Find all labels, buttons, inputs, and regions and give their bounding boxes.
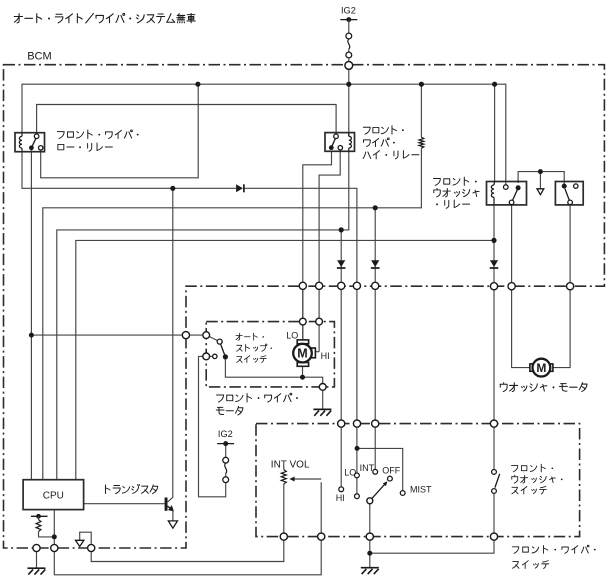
label front washer relay: [434, 179, 441, 186]
svg-text:MIST: MIST: [410, 485, 432, 495]
relay front wiper high - box: [325, 133, 355, 152]
front wiper motor enclosure border (dash-dot): [206, 322, 334, 387]
washer motor M2 - right terminal: [549, 364, 553, 371]
svg-text:HI: HI: [336, 493, 345, 503]
junction dot at CPU resistor tap: [36, 514, 41, 519]
relay front wiper low - armature dot: [29, 145, 34, 150]
relay front washer - NO contact dot: [516, 185, 521, 190]
connector motor box HI: [316, 318, 323, 325]
wire sub switch output to washer motor right: [553, 205, 570, 368]
wire INT line down to INT contact: [374, 208, 376, 469]
wire LO contact lower stub: [356, 478, 358, 494]
connector BCM bottom wiper-LO: [353, 282, 360, 289]
washer sub switch - output contact: [568, 200, 573, 205]
wiper switch pivot: [367, 498, 373, 504]
wire low relay NC contact loop to IG2 bus: [41, 84, 199, 178]
front wiper motor M1 - bottom terminal: [297, 363, 308, 367]
wire wiper switch pivot to ground: [369, 504, 371, 568]
IG2 lower supply dot: [223, 441, 228, 446]
washer switch arm: [495, 474, 500, 488]
off-page triangle at BCM ground line: [80, 532, 92, 548]
washer sub switch - arm: [565, 189, 570, 203]
wiper switch MIST contact: [400, 491, 405, 496]
svg-text:IG2: IG2: [218, 429, 233, 439]
wiper switch arm: [370, 484, 385, 501]
wire transistor base from CPU: [84, 503, 165, 505]
wire washer relay NO contact to sub switch contact: [518, 172, 564, 187]
wire HI node down to wiper switch HI contact: [340, 230, 342, 487]
wire LO line diode to wiper switch LO contact: [245, 188, 357, 473]
connector switch box bottom common: [366, 533, 373, 540]
svg-text:LO: LO: [286, 330, 298, 340]
wire INT VOL wiper arm: [294, 478, 321, 480]
wire washer relay coil bottom / washer switch line: [493, 205, 495, 470]
relay front washer - output contact: [509, 200, 514, 205]
wire CPU pin3 to HI node and high relay coil: [57, 151, 349, 479]
diode LO line D1 (pointing right): [236, 184, 243, 192]
IG2 top supply dot: [346, 17, 351, 22]
washer switch lower contact: [492, 489, 497, 494]
wiper switch LO lower contact: [355, 494, 360, 499]
wire washer relay coil top pin: [494, 84, 496, 182]
junction dot IG2 bus at NC loop: [195, 82, 200, 87]
front wiper motor M1 - HI terminal: [312, 348, 316, 358]
IG2 top supply bar: [340, 19, 357, 21]
auto-stop switch lower contact: [213, 354, 217, 358]
relay front washer - coil: [493, 182, 496, 205]
wire resistor to IG2 bus stub: [420, 84, 422, 137]
supply tap bar at CPU resistor: [31, 515, 48, 517]
wire low relay common to high relay common: [37, 105, 337, 134]
connector BCM bottom wiper-INT: [372, 282, 379, 289]
connector BCM bottom washer-motor-1: [508, 283, 515, 290]
junction dot washer coil at CPU line: [491, 238, 496, 243]
wire washer relay output to washer motor left: [512, 205, 530, 368]
wiper switch HI contact: [339, 487, 344, 492]
INT VOL wiper arrowhead: [289, 477, 294, 482]
connector BCM left auto-stop: [182, 332, 189, 339]
label washer motor: [500, 383, 507, 392]
relay front wiper high - armature dot: [329, 145, 334, 150]
wiper switch INT contact: [373, 469, 378, 474]
auto-stop switch pivot contact: [217, 339, 222, 344]
wire high relay armature to motor LO terminal: [303, 151, 332, 340]
wire low relay coil to transistor collector node and LO line: [22, 152, 236, 189]
label front wiper low relay: [57, 132, 64, 139]
washer sub switch - input dot: [562, 184, 567, 189]
diode HI line D2 (pointing down): [337, 260, 345, 267]
relay front wiper high - coil: [348, 133, 350, 152]
connector BCM bottom INT-VOL: [88, 544, 95, 551]
connector motor box ground: [319, 384, 326, 391]
relay front wiper high - armature arm: [331, 138, 335, 148]
relay front wiper high - NC contact: [338, 146, 342, 150]
connector switch box bottom INT-VOL-low: [280, 533, 287, 540]
connector BCM bottom washer-motor-2: [567, 283, 574, 290]
connector switch box washer: [490, 420, 497, 427]
wire washer switch lower contact to box bottom: [370, 494, 494, 554]
washer sub switch - spare contact: [574, 184, 578, 188]
transistor - base bar: [165, 498, 168, 511]
IG2 lower fuse: [223, 457, 229, 463]
auto-stop switch arm contact dot: [223, 354, 228, 359]
wire INT VOL lower terminal: [91, 484, 284, 562]
transistor - emitter off-page triangle: [168, 521, 177, 528]
relay front wiper low - common contact: [34, 134, 39, 139]
connector motor box auto-stop common: [203, 332, 210, 339]
wire high relay NC contact to motor HI terminal: [319, 151, 340, 351]
wire transistor collector from LO node: [168, 188, 173, 502]
label auto-stop switch: [236, 333, 242, 340]
connector motor box auto-stop NC: [203, 353, 210, 360]
svg-text:M: M: [536, 361, 546, 375]
relay front wiper low - coil: [21, 133, 23, 152]
connector switch box LO: [353, 420, 360, 427]
junction dot LO-MIST tie: [355, 446, 360, 451]
relay front washer - box: [487, 182, 527, 205]
wire motor common pin: [302, 366, 304, 377]
svg-text:M: M: [297, 347, 307, 361]
label front wiper high relay: [363, 127, 370, 134]
connector BCM bottom LO: [299, 282, 306, 289]
connector switch box bottom washer: [490, 533, 497, 540]
ground wiper switch: [361, 567, 379, 569]
transistor - emitter with arrow: [168, 506, 172, 509]
diode INT line D3 (pointing down): [371, 260, 379, 267]
IG2 top fuse: [348, 20, 350, 34]
junction dot CPU sense at armature line: [29, 333, 34, 338]
title text: [14, 14, 22, 23]
washer motor M2 - body: [533, 359, 551, 377]
junction dot INT line at resistor return: [373, 205, 378, 210]
connector switch box bottom INT-VOL-wiper: [318, 533, 325, 540]
wire motor HI terminal stub: [315, 351, 319, 353]
svg-text:INT: INT: [360, 463, 375, 473]
junction dot IG2 bus at resistor: [419, 82, 424, 87]
relay front wiper low - NC contact: [39, 146, 43, 150]
relay front wiper low - box: [15, 133, 45, 152]
wiper switch LO contact: [355, 473, 360, 478]
wire auto-stop slant to pivot: [209, 336, 218, 341]
front wiper motor M1 - body: [293, 344, 312, 363]
wire IG2 entry to high relay coil: [348, 69, 350, 136]
relay front washer - input contact: [504, 185, 509, 190]
connector BCM bottom washer-switch: [490, 283, 497, 290]
junction dot HI line at high relay coil: [339, 227, 344, 232]
CPU box: [23, 480, 84, 510]
diode washer line D4 (pointing down): [490, 260, 498, 267]
wire BCM case ground: [36, 548, 38, 568]
wire MIST jumper from LO line: [357, 448, 403, 490]
wire auto-stop arm output to motor common ground node: [225, 360, 322, 387]
washer switch upper contact: [492, 470, 497, 475]
IG2 lower supply bar: [217, 443, 234, 445]
wire INT VOL top stub: [283, 467, 285, 470]
washer motor M2 - left terminal: [530, 364, 534, 371]
wire IG2 lower connector upper stub: [225, 444, 227, 458]
relay front wiper low - armature arm: [31, 138, 36, 148]
IG2 top BCM entry connector: [345, 62, 353, 70]
svg-text:OFF: OFF: [382, 465, 400, 475]
label transistor: [105, 485, 110, 494]
connector BCM bottom wiper-HI: [338, 282, 345, 289]
wire CPU pin4 to washer relay coil: [76, 240, 494, 479]
washer sub switch - box: [555, 182, 583, 205]
wire IG2 supply bus y=84: [22, 84, 506, 184]
INT VOL resistor: [281, 470, 286, 484]
label front wiper switch: [512, 547, 519, 554]
connector BCM bottom CPU-ground: [51, 544, 58, 551]
auto-stop switch arm: [221, 344, 226, 357]
wire CPU ground pin: [54, 482, 321, 575]
front wiper motor M1 - top terminal: [297, 340, 308, 344]
wire CPU pin2 to INT line and washer resistor: [43, 148, 422, 480]
resistor washer line R: [419, 137, 424, 148]
resistor at CPU: [38, 516, 40, 519]
junction dot LO line at transistor collector: [170, 186, 175, 191]
svg-text:BCM: BCM: [27, 51, 51, 63]
junction dot switch ground node: [367, 551, 372, 556]
label front washer switch: [512, 466, 518, 472]
junction dot IG2 bus at IG2 entry: [346, 82, 351, 87]
junction dot IG2 bus at washer coil: [492, 82, 497, 87]
ground BCM case: [28, 567, 46, 569]
junction dot motor common: [300, 375, 305, 380]
label front wiper motor: [217, 395, 224, 402]
off-page triangle at washer relay node: [539, 172, 541, 189]
wire low relay armature to CPU pin1: [30, 150, 32, 479]
front wiper switch enclosure border (dash-dot): [256, 424, 580, 537]
junction dot CPU ground node: [52, 534, 57, 539]
ground wiper motor: [313, 408, 331, 410]
wire motor ground below box: [322, 387, 324, 410]
wire auto-stop lower contact to IG2 lower: [199, 356, 226, 496]
wire pull resistor tap to CPU ground node: [39, 532, 55, 537]
connector BCM bottom HI: [316, 282, 323, 289]
connector switch box INT: [372, 420, 379, 427]
svg-text:INT VOL: INT VOL: [271, 459, 310, 470]
junction dot washer relay node: [538, 169, 543, 174]
wire CPU sense to auto-stop switch common: [31, 334, 208, 336]
relay front washer - arm: [512, 190, 518, 203]
connector motor box LO: [299, 318, 306, 325]
wiper switch OFF contact: [388, 476, 393, 481]
wire motor LO into box: [302, 286, 304, 340]
connector switch box HI: [338, 420, 345, 427]
svg-text:CPU: CPU: [43, 490, 64, 501]
svg-text:HI: HI: [321, 351, 330, 361]
relay front wiper high - common contact: [334, 134, 339, 139]
svg-text:IG2: IG2: [341, 6, 356, 16]
svg-text:LO: LO: [344, 467, 356, 477]
connector BCM bottom ground: [33, 544, 40, 551]
